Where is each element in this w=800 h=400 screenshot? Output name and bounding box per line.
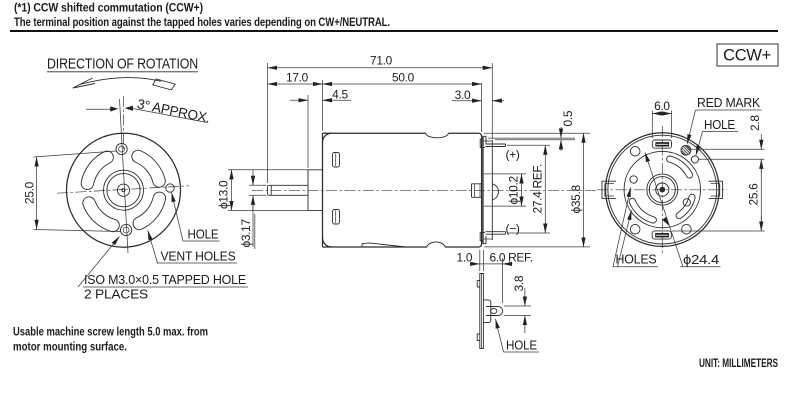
svg-text:ϕ35.8: ϕ35.8 [569,185,583,214]
svg-text:CCW+: CCW+ [723,47,771,65]
svg-text:HOLE: HOLE [506,338,537,353]
svg-text:3.0: 3.0 [455,88,471,102]
svg-text:HOLES: HOLES [616,252,657,267]
svg-text:VENT HOLES: VENT HOLES [161,249,236,264]
svg-text:3.8: 3.8 [512,275,526,291]
svg-text:2.8: 2.8 [748,115,762,131]
svg-text:1.0: 1.0 [457,251,473,265]
svg-text:ϕ10.2: ϕ10.2 [507,176,521,205]
svg-text:4.5: 4.5 [332,88,348,102]
svg-text:6.0: 6.0 [654,99,670,113]
svg-text:(+): (+) [506,148,520,162]
svg-text:25.6: 25.6 [747,183,761,206]
svg-text:2 PLACES: 2 PLACES [84,287,148,302]
svg-text:ϕ24.4: ϕ24.4 [683,252,719,267]
svg-text:(*1) CCW shifted commutation (: (*1) CCW shifted commutation (CCW+) [14,1,203,15]
svg-text:6.0 REF.: 6.0 REF. [490,251,533,265]
svg-text:3° APPROX.: 3° APPROX. [136,96,211,125]
svg-text:17.0: 17.0 [286,71,309,85]
svg-text:0.5: 0.5 [561,110,575,126]
svg-text:DIRECTION OF ROTATION: DIRECTION OF ROTATION [47,56,198,73]
svg-text:motor mounting surface.: motor mounting surface. [13,340,127,354]
svg-text:UNIT: MILLIMETERS: UNIT: MILLIMETERS [699,356,778,370]
svg-text:The terminal position against: The terminal position against the tapped… [14,15,390,29]
svg-text:ISO M3.0×0.5 TAPPED HOLE: ISO M3.0×0.5 TAPPED HOLE [84,272,246,287]
svg-text:71.0: 71.0 [370,54,393,68]
svg-text:50.0: 50.0 [392,71,415,85]
svg-text:ϕ13.0: ϕ13.0 [217,180,231,209]
svg-text:Usable machine screw length 5.: Usable machine screw length 5.0 max. fro… [13,325,208,339]
svg-text:ϕ3.17: ϕ3.17 [239,219,253,248]
svg-text:25.0: 25.0 [23,181,37,204]
svg-text:27.4 REF.: 27.4 REF. [530,164,544,214]
svg-text:HOLE: HOLE [704,117,735,132]
svg-text:RED MARK: RED MARK [697,95,760,110]
svg-text:HOLE: HOLE [188,227,219,242]
